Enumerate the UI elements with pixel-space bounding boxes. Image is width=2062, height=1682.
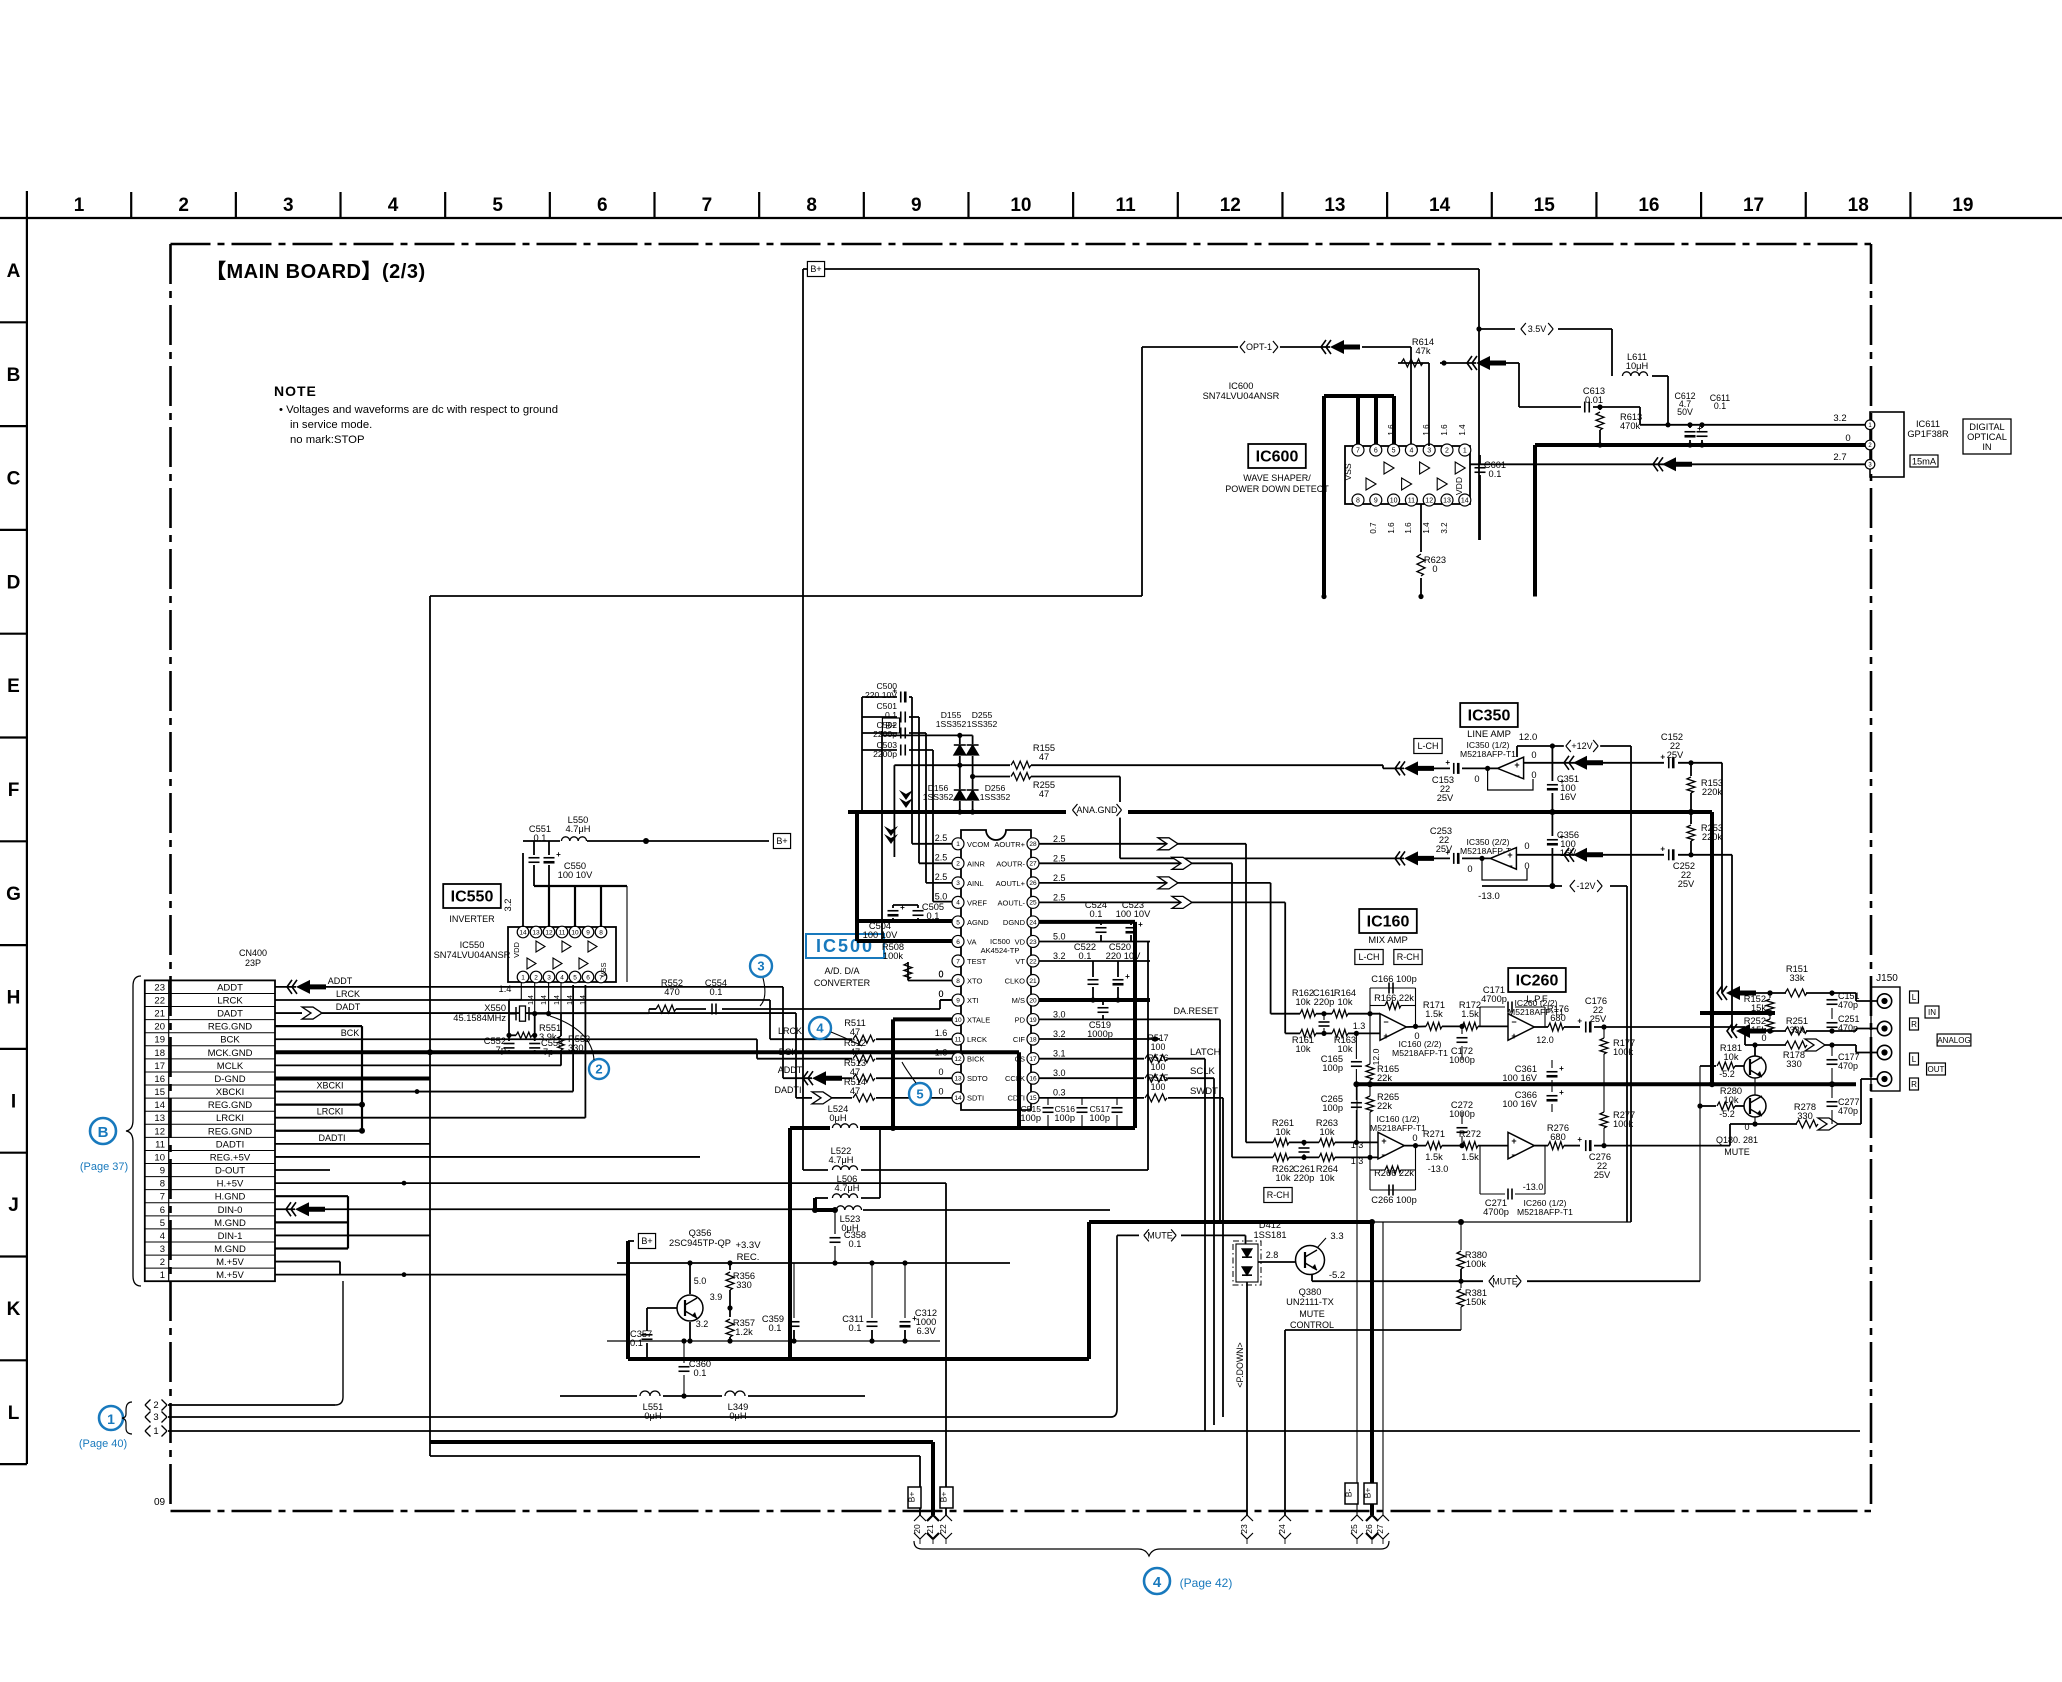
svg-text:10k: 10k bbox=[1338, 1044, 1353, 1054]
wire DIN-1 row4 bbox=[275, 1234, 430, 1236]
IC550 top pins 14-8 bbox=[517, 926, 607, 938]
svg-text:09: 09 bbox=[154, 1497, 166, 1508]
svg-text:3.2: 3.2 bbox=[1833, 413, 1846, 424]
svg-text:+: + bbox=[1577, 1017, 1582, 1026]
svg-text:0.1: 0.1 bbox=[1714, 401, 1726, 411]
svg-text:ADDT: ADDT bbox=[217, 982, 243, 993]
capacitor C612 bbox=[1685, 431, 1696, 433]
svg-text:5: 5 bbox=[956, 919, 960, 926]
net label MUTE right bbox=[1461, 1280, 1483, 1282]
svg-text:7: 7 bbox=[956, 958, 960, 965]
net -12V wire bbox=[1482, 885, 1562, 887]
svg-text:0.1: 0.1 bbox=[1090, 909, 1103, 919]
bottom tag21 wire thick bbox=[430, 1440, 933, 1444]
svg-text:-12V: -12V bbox=[1576, 881, 1595, 891]
B+ rail L522 bbox=[803, 1169, 828, 1171]
svg-text:9: 9 bbox=[586, 929, 590, 936]
svg-text:15: 15 bbox=[154, 1087, 165, 1098]
wire AOUTR- bbox=[1039, 862, 1232, 864]
IC550 chip body bbox=[508, 927, 616, 982]
svg-text:680: 680 bbox=[1550, 1132, 1566, 1142]
svg-text:100p: 100p bbox=[1322, 1063, 1343, 1073]
svg-text:K: K bbox=[7, 1299, 21, 1320]
svg-text:47: 47 bbox=[850, 1067, 860, 1077]
thick mid rail bbox=[1356, 1082, 1856, 1086]
svg-text:150k: 150k bbox=[1466, 1297, 1487, 1307]
capacitor C172 bbox=[1461, 1026, 1463, 1034]
svg-text:47: 47 bbox=[1039, 752, 1049, 762]
capacitor C611 bbox=[1697, 431, 1708, 433]
svg-text:AK4524-TP: AK4524-TP bbox=[981, 946, 1020, 955]
B+ box mid bbox=[638, 1234, 655, 1249]
svg-text:DADT: DADT bbox=[336, 1002, 361, 1012]
arrow tag24 bbox=[1279, 1515, 1291, 1521]
resistor R277 bbox=[1603, 1084, 1605, 1112]
svg-text:100: 100 bbox=[1151, 1082, 1166, 1092]
svg-text:1.6: 1.6 bbox=[935, 1048, 948, 1058]
svg-text:220 10V: 220 10V bbox=[1106, 951, 1141, 961]
capacitor C613 bbox=[1519, 406, 1581, 408]
svg-text:H: H bbox=[7, 988, 21, 1009]
svg-text:11: 11 bbox=[559, 929, 566, 936]
svg-text:IN: IN bbox=[1928, 1008, 1936, 1017]
resistor R512 bbox=[853, 1055, 875, 1063]
svg-text:220p: 220p bbox=[1314, 997, 1335, 1007]
svg-text:330: 330 bbox=[1797, 1111, 1813, 1121]
svg-text:VREF: VREF bbox=[967, 898, 987, 907]
svg-text:2: 2 bbox=[160, 1257, 165, 1268]
wire D-OUT row9 bbox=[275, 1169, 330, 1171]
svg-text:100k: 100k bbox=[1613, 1047, 1634, 1057]
svg-text:2.5: 2.5 bbox=[935, 872, 948, 882]
svg-text:3.1: 3.1 bbox=[1053, 1049, 1066, 1059]
svg-text:IN: IN bbox=[1982, 442, 1991, 452]
svg-text:22k: 22k bbox=[1377, 1073, 1392, 1083]
wire R-IN bbox=[1752, 1030, 1786, 1032]
wire LRCKI row13 bbox=[275, 1117, 585, 1119]
svg-text:DIN-0: DIN-0 bbox=[218, 1205, 243, 1216]
P.DOWN line bbox=[1246, 1282, 1248, 1515]
arrow tag27 bbox=[1377, 1515, 1389, 1521]
svg-text:2.8: 2.8 bbox=[1266, 1250, 1279, 1260]
R-CH box bbox=[1264, 1188, 1292, 1203]
svg-text:3.2: 3.2 bbox=[503, 899, 513, 912]
svg-text:IC350: IC350 bbox=[1468, 708, 1511, 725]
wire VT bbox=[1039, 960, 1150, 962]
J150 connector body bbox=[1871, 987, 1900, 1091]
svg-text:LRCK: LRCK bbox=[336, 989, 360, 999]
svg-text:25V: 25V bbox=[1437, 793, 1454, 803]
svg-text:14: 14 bbox=[1429, 195, 1451, 216]
svg-text:INVERTER: INVERTER bbox=[449, 914, 495, 924]
svg-text:NOTE: NOTE bbox=[274, 383, 317, 399]
resistor R514 bbox=[853, 1094, 875, 1102]
cap left bus bbox=[861, 697, 863, 812]
svg-text:REG.GND: REG.GND bbox=[208, 1126, 252, 1137]
svg-text:B+: B+ bbox=[907, 1492, 917, 1503]
svg-text:TEST: TEST bbox=[967, 957, 987, 966]
svg-text:DIGITAL: DIGITAL bbox=[1969, 422, 2004, 432]
resistor R614 bbox=[1428, 363, 1430, 446]
svg-text:AOUTR-: AOUTR- bbox=[996, 859, 1025, 868]
svg-text:470p: 470p bbox=[1838, 1023, 1858, 1033]
svg-text:−: − bbox=[1507, 861, 1512, 871]
svg-text:OPTICAL: OPTICAL bbox=[1967, 432, 2007, 442]
svg-text:45.1584MHz: 45.1584MHz bbox=[453, 1013, 506, 1023]
svg-text:1000p: 1000p bbox=[1087, 1029, 1113, 1039]
svg-text:-5.2: -5.2 bbox=[1329, 1270, 1345, 1281]
svg-text:220 10V: 220 10V bbox=[865, 690, 897, 700]
wire DIN-0 row6 bbox=[275, 1208, 295, 1210]
L-CH box bbox=[1414, 739, 1442, 754]
arrow tag22 bbox=[940, 1515, 952, 1521]
svg-text:3.9: 3.9 bbox=[710, 1292, 723, 1302]
svg-text:GP1F38R: GP1F38R bbox=[1907, 429, 1949, 439]
svg-text:DADT: DADT bbox=[217, 1009, 243, 1020]
svg-text:25V: 25V bbox=[1667, 750, 1684, 760]
svg-text:9: 9 bbox=[911, 195, 922, 216]
inductor L522 bbox=[832, 1166, 857, 1170]
svg-text:D412: D412 bbox=[1259, 1220, 1281, 1230]
svg-text:23: 23 bbox=[1029, 939, 1037, 946]
svg-text:+3.3V: +3.3V bbox=[735, 1240, 761, 1251]
IC500 right voltage labels bbox=[1053, 834, 1066, 1098]
resistor R265 bbox=[1369, 1084, 1371, 1096]
svg-text:4700p: 4700p bbox=[1483, 1207, 1509, 1217]
R381 to tag24 bbox=[1285, 1329, 1461, 1331]
IC550 gates bbox=[527, 941, 597, 969]
wire ADDT row23 bbox=[275, 986, 296, 988]
svg-text:7: 7 bbox=[160, 1192, 165, 1203]
svg-text:BCK: BCK bbox=[779, 1047, 798, 1057]
capacitor C505 bbox=[913, 910, 924, 912]
svg-text:-13.0: -13.0 bbox=[1428, 1164, 1449, 1174]
svg-text:470: 470 bbox=[664, 987, 680, 997]
capacitor C554 bbox=[711, 1004, 713, 1015]
wire M+5V row2 bbox=[275, 1261, 340, 1263]
svg-text:LRCK: LRCK bbox=[967, 1035, 987, 1044]
svg-text:24: 24 bbox=[1029, 919, 1037, 926]
arrow down solid 2 bbox=[884, 826, 898, 836]
svg-text:2.7: 2.7 bbox=[1833, 452, 1846, 463]
svg-text:AOUTR+: AOUTR+ bbox=[994, 840, 1025, 849]
svg-text:23: 23 bbox=[154, 982, 165, 993]
op-amp IC350-1 bbox=[1498, 757, 1524, 779]
wire MCLK row17 bbox=[275, 1064, 561, 1066]
resistor R251 bbox=[1785, 1027, 1807, 1035]
crystal corner wire bbox=[508, 1000, 510, 1014]
svg-text:16V: 16V bbox=[1560, 792, 1577, 802]
blue ref circle 3 bbox=[750, 955, 772, 977]
arrow tag23 bbox=[1246, 1514, 1248, 1516]
svg-text:7p: 7p bbox=[543, 1047, 553, 1057]
B- box tag25 bbox=[1345, 1483, 1358, 1504]
net label OPT-1 bbox=[1238, 339, 1280, 354]
arrow out IC350-2 bbox=[1404, 851, 1434, 865]
svg-text:21: 21 bbox=[154, 1009, 165, 1020]
wire AOUTR+ bbox=[1039, 843, 1246, 845]
ruler row letters A-L bbox=[6, 261, 21, 1424]
svg-text:330: 330 bbox=[736, 1280, 752, 1290]
svg-text:220k: 220k bbox=[1702, 787, 1723, 797]
svg-text:R-CH: R-CH bbox=[1397, 952, 1420, 962]
transistor Q356 bbox=[677, 1295, 703, 1321]
svg-text:1.4: 1.4 bbox=[1458, 424, 1467, 436]
wire tag3 mute bbox=[168, 1416, 1111, 1418]
svg-text:0.1: 0.1 bbox=[534, 833, 547, 843]
svg-text:B: B bbox=[98, 1124, 109, 1141]
svg-text:1: 1 bbox=[74, 195, 85, 216]
svg-text:REG.GND: REG.GND bbox=[208, 1100, 252, 1111]
resistor R155 bbox=[894, 764, 1010, 766]
capacitor C601 bbox=[1479, 455, 1481, 465]
wire L550 to B+ bbox=[587, 840, 769, 842]
svg-text:0μH: 0μH bbox=[644, 1411, 661, 1421]
arrow tag26 bbox=[1366, 1515, 1378, 1521]
IC260-1 output bbox=[1534, 1145, 1548, 1147]
svg-text:SWDT: SWDT bbox=[1190, 1086, 1218, 1097]
wire M.GND row5 bbox=[275, 1221, 348, 1223]
wire L551 line bbox=[560, 1395, 637, 1397]
svg-text:1.2k: 1.2k bbox=[735, 1327, 753, 1337]
wire PD DA.RESET bbox=[1039, 1018, 1220, 1020]
svg-text:12: 12 bbox=[1425, 498, 1433, 505]
svg-text:100p: 100p bbox=[1089, 1113, 1110, 1123]
wire M+5V row1 bbox=[275, 1274, 628, 1276]
svg-text:4.7μH: 4.7μH bbox=[566, 824, 591, 834]
svg-text:F: F bbox=[8, 780, 20, 801]
signal channel BCK bbox=[756, 1039, 758, 1058]
feedback box R bbox=[1369, 1157, 1371, 1190]
L IN R labels bbox=[1910, 991, 1919, 1003]
svg-text:5: 5 bbox=[160, 1218, 165, 1229]
svg-text:WAVE SHAPER/: WAVE SHAPER/ bbox=[1243, 473, 1311, 483]
IC500 left voltage labels bbox=[935, 833, 948, 1097]
svg-text:0: 0 bbox=[1412, 1133, 1417, 1143]
resistor R551 bbox=[508, 1014, 510, 1036]
svg-text:100 10V: 100 10V bbox=[1116, 909, 1151, 919]
svg-text:3.5V: 3.5V bbox=[1528, 324, 1547, 334]
bottom brace bbox=[914, 1541, 1389, 1556]
svg-text:XBCKI: XBCKI bbox=[216, 1087, 245, 1098]
wire CS LATCH bbox=[1039, 1058, 1144, 1060]
svg-text:R: R bbox=[1911, 1080, 1917, 1089]
resistor R178 bbox=[1785, 1041, 1807, 1049]
svg-text:13: 13 bbox=[1443, 498, 1451, 505]
IC260-2 output bbox=[1534, 1026, 1548, 1028]
svg-text:50V: 50V bbox=[1677, 407, 1693, 417]
wire IC550 top bus bbox=[522, 853, 524, 927]
svg-text:CIF: CIF bbox=[1013, 1035, 1026, 1044]
svg-text:-13.0: -13.0 bbox=[1478, 891, 1500, 902]
arrow down solid 1 bbox=[899, 790, 913, 800]
resistor R513 bbox=[853, 1074, 875, 1082]
wire XBCKI row15 bbox=[275, 1091, 573, 1093]
svg-text:15: 15 bbox=[1029, 1095, 1037, 1102]
svg-text:0: 0 bbox=[938, 969, 943, 979]
svg-text:M5218AFP-T1: M5218AFP-T1 bbox=[1370, 1123, 1426, 1133]
svg-text:H.+5V: H.+5V bbox=[217, 1179, 244, 1190]
arrow AOUTL+ bbox=[1158, 877, 1178, 889]
arrow R-OUT open bbox=[1818, 1118, 1838, 1130]
wire AOUTL- bbox=[1039, 901, 1285, 903]
svg-text:22: 22 bbox=[154, 995, 165, 1006]
svg-text:VSS: VSS bbox=[599, 962, 608, 977]
svg-text:10: 10 bbox=[571, 929, 579, 936]
svg-text:L-CH: L-CH bbox=[1417, 741, 1438, 751]
op-amp IC260-2 bbox=[1508, 1014, 1534, 1041]
svg-text:ADDT: ADDT bbox=[328, 976, 353, 986]
svg-text:20: 20 bbox=[912, 1524, 922, 1534]
svg-text:VT: VT bbox=[1015, 957, 1025, 966]
svg-text:ANALOG: ANALOG bbox=[1937, 1036, 1970, 1045]
arrow out IC350-1 bbox=[1404, 761, 1434, 775]
svg-text:J150: J150 bbox=[1876, 973, 1898, 984]
svg-text:DA.RESET: DA.RESET bbox=[1173, 1006, 1219, 1016]
svg-text:VCOM: VCOM bbox=[967, 840, 990, 849]
capacitor C271 bbox=[1479, 1146, 1481, 1194]
svg-text:3: 3 bbox=[1427, 448, 1431, 455]
svg-text:14: 14 bbox=[1461, 498, 1469, 505]
connector CN400 brace bbox=[126, 976, 141, 1286]
ruler column numbers 1-19 bbox=[74, 195, 1974, 216]
op-amp IC350-1 plus input wire bbox=[1524, 762, 1664, 764]
ruler column ticks bbox=[131, 192, 1910, 218]
diode column wires bbox=[959, 756, 961, 789]
svg-text:13: 13 bbox=[154, 1113, 165, 1124]
wire tag2 bbox=[168, 1404, 335, 1406]
svg-text:SDTO: SDTO bbox=[967, 1074, 988, 1083]
svg-text:M5218AFP-T1: M5218AFP-T1 bbox=[1517, 1207, 1573, 1217]
svg-text:19: 19 bbox=[154, 1035, 165, 1046]
svg-text:3: 3 bbox=[757, 959, 764, 974]
bottom tag27 wire bbox=[1382, 1222, 1384, 1515]
svg-text:B+: B+ bbox=[776, 836, 787, 846]
svg-text:6: 6 bbox=[597, 195, 608, 216]
svg-text:0: 0 bbox=[1531, 770, 1536, 780]
B+ box tag20 bbox=[908, 1487, 921, 1508]
svg-text:1SS352: 1SS352 bbox=[923, 792, 954, 802]
svg-text:D: D bbox=[7, 572, 21, 593]
svg-text:+: + bbox=[1383, 1031, 1388, 1041]
svg-text:3.0: 3.0 bbox=[1053, 1010, 1066, 1020]
arrow R-IN solid bbox=[1736, 1024, 1766, 1038]
svg-text:(Page 37): (Page 37) bbox=[80, 1161, 128, 1173]
resistor R552 bbox=[656, 1005, 676, 1013]
svg-text:0: 0 bbox=[1845, 433, 1850, 444]
svg-text:MUTE: MUTE bbox=[1724, 1147, 1750, 1157]
svg-text:(Page 42): (Page 42) bbox=[1180, 1576, 1233, 1590]
svg-text:Q356: Q356 bbox=[689, 1228, 712, 1238]
svg-text:1: 1 bbox=[160, 1270, 165, 1281]
IC350-1 output and C153 bbox=[1462, 767, 1498, 769]
svg-text:0: 0 bbox=[1467, 864, 1472, 874]
svg-text:2: 2 bbox=[1445, 448, 1449, 455]
wire DADT row21 bbox=[275, 1012, 302, 1014]
svg-text:L: L bbox=[1912, 1055, 1917, 1064]
resistor R508 bbox=[908, 980, 952, 982]
svg-text:LINE AMP: LINE AMP bbox=[1467, 729, 1511, 740]
svg-text:14: 14 bbox=[954, 1095, 962, 1102]
svg-text:VD: VD bbox=[1015, 937, 1026, 946]
svg-text:(Page 40): (Page 40) bbox=[79, 1438, 127, 1450]
wire C252 to R251 node bbox=[1731, 855, 1733, 1031]
main board dash-dot frame bbox=[171, 243, 1872, 246]
svg-text:11: 11 bbox=[1116, 195, 1137, 216]
svg-text:4: 4 bbox=[1409, 448, 1413, 455]
thick mute rail bbox=[1089, 1220, 1372, 1224]
wire M/S thick bbox=[1039, 998, 1150, 1002]
diode D155 bbox=[954, 745, 966, 755]
svg-text:2: 2 bbox=[956, 861, 960, 868]
svg-text:12: 12 bbox=[154, 1126, 165, 1137]
wire D-GND row16 thick bbox=[275, 1076, 430, 1080]
svg-text:B+: B+ bbox=[641, 1236, 652, 1246]
svg-text:X550: X550 bbox=[484, 1003, 506, 1013]
border ruler top line bbox=[0, 217, 2062, 219]
svg-text:0.1: 0.1 bbox=[927, 911, 940, 921]
net label MUTE left bbox=[1142, 1228, 1178, 1243]
svg-text:8: 8 bbox=[599, 929, 603, 936]
svg-text:9: 9 bbox=[160, 1166, 165, 1177]
wire +12V vertical bbox=[1630, 746, 1632, 1222]
net label 3.5V bbox=[1519, 321, 1555, 336]
svg-text:6: 6 bbox=[160, 1205, 165, 1216]
wire opt1 horiz bbox=[1142, 346, 1330, 348]
capacitor C265 bbox=[1355, 1084, 1357, 1100]
svg-text:47: 47 bbox=[850, 1027, 860, 1037]
arrow tag21 bbox=[927, 1515, 939, 1521]
svg-text:LRCKI: LRCKI bbox=[317, 1107, 344, 1117]
svg-text:4: 4 bbox=[160, 1231, 165, 1242]
svg-text:0.1: 0.1 bbox=[1079, 951, 1092, 961]
svg-text:100p: 100p bbox=[1322, 1103, 1343, 1113]
arrow tag25 bbox=[1351, 1515, 1363, 1521]
svg-text:17: 17 bbox=[154, 1061, 165, 1072]
wire dgnd bottom bus thick bbox=[1019, 1126, 1135, 1130]
svg-text:+12V: +12V bbox=[1571, 741, 1592, 751]
diode D412b bbox=[1242, 1267, 1252, 1275]
svg-text:1SS352: 1SS352 bbox=[980, 792, 1011, 802]
svg-text:100: 100 bbox=[1151, 1062, 1166, 1072]
svg-text:M.GND: M.GND bbox=[214, 1244, 246, 1255]
wire tag1 bbox=[168, 1430, 1860, 1432]
svg-text:10k: 10k bbox=[1296, 1044, 1311, 1054]
svg-text:【MAIN BOARD】(2/3): 【MAIN BOARD】(2/3) bbox=[206, 260, 426, 283]
J150 jacks bbox=[1877, 994, 1891, 1008]
svg-text:M.+5V: M.+5V bbox=[216, 1270, 244, 1281]
svg-text:1: 1 bbox=[1463, 448, 1467, 455]
op-amp IC260-1 bbox=[1508, 1132, 1534, 1159]
svg-text:VA: VA bbox=[967, 937, 976, 946]
svg-text:REC.: REC. bbox=[737, 1252, 760, 1263]
resistor R253 bbox=[1690, 812, 1692, 824]
svg-text:16: 16 bbox=[1638, 195, 1659, 216]
svg-text:9: 9 bbox=[1374, 498, 1378, 505]
svg-text:+: + bbox=[1660, 844, 1665, 853]
svg-text:DADTI: DADTI bbox=[775, 1085, 802, 1095]
svg-text:10: 10 bbox=[1390, 498, 1398, 505]
svg-text:A: A bbox=[7, 261, 21, 282]
svg-text:10k: 10k bbox=[1276, 1127, 1291, 1137]
svg-text:R166 22k: R166 22k bbox=[1374, 993, 1414, 1003]
svg-text:3.2: 3.2 bbox=[1053, 951, 1066, 961]
capacitor C359 bbox=[793, 1263, 795, 1318]
thick bus 1128 with L524 bbox=[790, 1126, 830, 1130]
svg-text:2.5: 2.5 bbox=[935, 833, 948, 843]
capacitor C266 bbox=[1388, 1185, 1390, 1196]
svg-text:+: + bbox=[1511, 1031, 1516, 1041]
